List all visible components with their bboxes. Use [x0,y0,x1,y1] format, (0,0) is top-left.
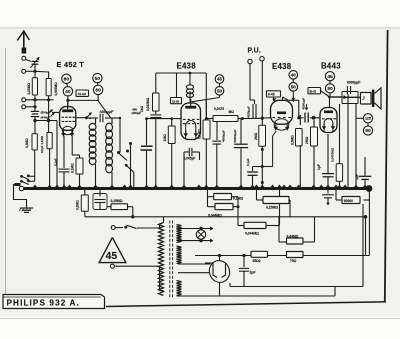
svg-text:E438: E438 [272,62,292,71]
svg-text:·450: ·450 [132,108,138,112]
bus junction x=79.5 [77,185,82,188]
svg-text:2MΩ: 2MΩ [305,136,309,144]
op E438 first tube [181,103,201,140]
ground [20,207,33,209]
frame bottom faint line [0,318,400,320]
svg-text:0,044MΩ: 0,044MΩ [208,214,222,218]
ground bus [21,187,372,190]
svg-text:4250μμF: 4250μμF [247,106,251,118]
resistor 0.1M cathode2 [203,120,210,139]
trimmer box E-2 [76,90,89,96]
terminal E1 [22,105,26,109]
capacitor 500pF stack [31,111,39,120]
resistor 1.1M lower-left [47,133,52,149]
svg-text:50: 50 [95,76,101,82]
svg-text:50: 50 [217,88,223,93]
resistor 2M [259,125,266,146]
band switch contacts [20,174,35,184]
test point 45b [325,72,334,81]
svg-text:╯: ╯ [362,96,366,103]
coil L2 [106,123,113,132]
svg-text:90: 90 [365,128,371,134]
frame top edge [0,27,400,29]
coil L1 [89,123,96,130]
wire tp B443 [329,81,331,84]
wires input resistors [35,71,49,100]
tube2 plate lead [283,97,289,101]
electrolytic cap right [322,189,334,206]
transformer secondary S1 [177,225,182,243]
svg-text:45: 45 [217,77,223,82]
trimmer box grid B443 [308,88,321,94]
rf coil above tube [186,85,193,89]
trimmer box B-6 [171,98,182,104]
op E452T tube [60,107,76,131]
bus junction x=356 [353,185,358,188]
terminal mains2 [110,264,114,268]
output cap can [342,92,358,104]
svg-text:0,0475: 0,0475 [214,107,224,111]
svg-text:80: 80 [64,77,70,83]
mains2 wire [114,266,163,290]
label triangle 45 [99,237,126,262]
bus junction x=49.6 [47,185,52,188]
resistor 0.0475M horizontal [213,116,238,122]
svg-text:0,05MΩ: 0,05MΩ [27,83,31,95]
bus left terminal [19,186,23,190]
svg-text:0,1μF: 0,1μF [54,158,58,166]
capacitor 8000pF [346,86,348,94]
svg-text:0,1MΩ: 0,1MΩ [198,129,202,139]
bus junction x=112 [109,185,114,188]
svg-text:45: 45 [327,74,333,80]
variable capacitor 400pF [88,114,112,122]
svg-text:1μF: 1μF [317,164,321,170]
wire tp to tube cap [66,84,110,118]
tp 125 wires [356,118,368,126]
bus junction x=216.8 [214,185,219,188]
resistor 0.3M lower-left [32,134,37,150]
wires 0.0475M [205,100,249,120]
resistor 0.0475M second [336,164,342,182]
wire E1 row [26,100,37,112]
op B443 tube [320,108,337,133]
ground connection wire [14,183,27,208]
bus junction x=206.3 [204,185,209,188]
test point 125 [363,114,372,123]
wire bias row [33,100,57,189]
capacitor 4250pF first [250,64,256,119]
bus junction x=171.7 [169,185,174,188]
resistor 0.15M b [263,197,289,204]
bus junction x=256.5 [254,185,259,188]
wires 60000 [336,189,369,201]
capacitor 4000pF hang [212,122,221,189]
bus junction x=64 [61,185,66,188]
svg-text:4250μμF: 4250μμF [302,98,306,110]
bus junction x=298.8 [296,185,301,188]
B443 grid wire [321,91,331,108]
resistor 2M second [311,127,318,146]
frame right edge [385,30,388,302]
capacitor 3uF [239,254,249,287]
test point 50 [93,73,102,82]
capacitor 0.045uF [184,148,200,189]
resistor 0.044M a [215,204,233,210]
test point 90b [363,126,372,135]
wires 2M [249,118,264,188]
svg-text:lp·Ω: lp·Ω [310,89,317,93]
wire plate drop [205,73,207,189]
svg-text:0,44MΩ: 0,44MΩ [287,234,299,238]
svg-text:1μF: 1μF [355,174,359,180]
wires 0.15M b [257,189,291,217]
wire A2 row [26,70,49,79]
resistor 0.1M cathode1 [76,158,83,174]
test point 50c [289,83,298,92]
svg-text:0,044MΩ: 0,044MΩ [245,232,259,236]
transformer primary [159,223,164,296]
test point 90 [325,84,334,93]
antenna trimmer capacitor [26,57,40,71]
bus junction x=321.3 [319,185,324,188]
svg-text:0,0475MΩ: 0,0475MΩ [331,147,335,162]
wires 0.15M mains [107,207,135,219]
antenna [17,31,29,54]
bus junction x=345 [342,185,347,188]
svg-text:MΩ: MΩ [229,110,235,114]
resistor 0.05M [32,78,37,95]
wire 2M second [313,120,315,127]
bus junction x=328 [325,185,330,188]
resistor 550 [251,251,268,257]
svg-text:3μF: 3μF [250,271,256,275]
resistor 0.15M mains [111,204,128,210]
bus junction x=272.5 [270,185,275,188]
svg-text:0,042MΩ: 0,042MΩ [146,97,150,111]
svg-text:δ1·E2: δ1·E2 [78,92,86,96]
transformer secondary S2 [177,246,182,264]
bus junction x=155.8 [153,185,158,188]
bottom nested wires [177,204,364,296]
terminal mains1 [111,226,115,230]
svg-text:PHILIPS 932 A.: PHILIPS 932 A. [7,298,80,307]
bus junction x=95.5 [93,185,98,188]
tube2 cathode curl [262,131,276,167]
wire tp45 to tube [192,83,220,102]
test point 50b [215,87,224,96]
bus junction x=262.3 [260,185,265,188]
bus big junction dot [366,185,373,192]
tube1 cathode network [64,136,80,168]
svg-text:125: 125 [365,117,371,121]
svg-text:0,15MΩ: 0,15MΩ [111,199,123,203]
speaker [361,88,382,109]
bus junction x=365 [362,185,367,188]
svg-text:0,1MΩ: 0,1MΩ [71,163,75,173]
mains rail [85,216,366,218]
capacitor 0.1uF [247,167,262,189]
terminal PU2 [260,57,264,61]
svg-text:50: 50 [291,84,297,89]
svg-text:0,5μF 1,1MΩ: 0,5μF 1,1MΩ [40,135,44,153]
heater row wire [195,255,251,257]
bus junction x=279.5 [277,185,282,188]
wave switch cluster [112,117,134,189]
svg-text:E 452 T: E 452 T [57,60,85,69]
wires 0.044M b [238,189,280,226]
boxed capacitor mains [93,189,107,210]
padder capacitor [141,118,153,189]
svg-text:0,065MΩ: 0,065MΩ [54,82,58,96]
svg-text:40: 40 [291,72,297,77]
resistor 0.2M [81,195,88,211]
resistor 0.042M [153,93,160,111]
wire 75 right [303,255,369,257]
bus junction x=184 [181,185,186,188]
svg-text:0,3MΩ: 0,3MΩ [25,138,29,148]
svg-text:δ1·6δ: δ1·6δ [172,99,180,103]
svg-text:40: 40 [65,89,71,95]
svg-text:0,15MΩ: 0,15MΩ [266,206,278,210]
PU wires [261,61,263,118]
wire tp50-60 [97,83,100,85]
bus junction x=199 [196,185,201,188]
resistor 0.44M [287,238,304,244]
svg-text:1kΩ: 1kΩ [140,105,144,112]
svg-text:2MΩ: 2MΩ [254,132,258,140]
rectifier 506 tube [178,254,232,296]
svg-text:B443: B443 [321,62,341,71]
wires bias network [208,189,240,226]
wire 0.5M [299,115,301,125]
terminal PU1 [248,59,252,63]
resistor 0.065M [46,79,51,96]
svg-text:50000μμF: 50000μμF [233,129,237,142]
tube2 grid lead [261,117,271,120]
test point 40b [289,71,298,80]
svg-text:90: 90 [327,86,333,92]
svg-text:60000: 60000 [344,199,353,203]
bus junction x=252.5 [250,185,255,188]
bus junction x=146.5 [144,185,149,188]
svg-text:0,2MΩ: 0,2MΩ [76,200,80,210]
trimmer box 0-45 [267,91,281,97]
bus junction x=284 [281,185,286,188]
right drop wires [364,189,370,256]
resistor 0.1M bias [214,194,232,200]
screen feed rail [156,72,207,93]
wires 0.44M [279,217,315,242]
bus junction x=313.6 [311,185,316,188]
test point 40 [63,87,72,96]
bus junction x=130.5 [128,185,133,188]
terminal A2 [22,69,26,73]
bus junction x=69.5 [67,185,72,188]
capacitor tube1 bypass [59,168,70,170]
frame bottom edge [106,302,386,307]
wire cathode1 to bus [79,174,81,189]
svg-text:0·45: 0·45 [268,93,275,97]
bus junction x=241 [238,185,243,188]
svg-text:0,1μF: 0,1μF [246,158,250,166]
capacitor under 0.042M [150,111,161,189]
svg-text:0,5MΩ: 0,5MΩ [291,135,295,145]
resistor 0.044M b [244,222,266,228]
capacitor 50000pF [234,119,248,189]
test point 60 [93,85,102,94]
test point 45 [215,75,224,84]
transformer core [170,221,173,298]
svg-text:P.U.: P.U. [248,48,262,55]
capacitor 1uF right [359,157,372,189]
svg-text:E438: E438 [177,62,197,71]
bus junction x=124.5 [122,185,127,188]
resistor 0.5M [296,129,303,147]
svg-text:0,045μF: 0,045μF [184,157,196,161]
bus junction x=336 [333,185,338,188]
resistor 60000 [342,197,360,204]
svg-text:400μμF: 400μμF [100,109,115,114]
terminal A1 [22,98,26,102]
wire 0.0475M second [339,104,341,189]
wire A1 row [26,98,54,101]
tube1 grid lead [49,109,60,116]
bus junction x=339.5 [337,185,342,188]
wires lower resistors to switch [35,149,50,189]
capacitor 1uF cathode B443 [322,134,334,189]
test point 80 [62,74,71,83]
antenna terminal [22,56,26,60]
capacitor 4250pF second [289,100,321,122]
transformer secondary S3 [177,281,182,296]
title box PHILIPS 932A [3,295,105,309]
output line [331,95,361,99]
svg-text:8000μμF: 8000μμF [347,81,360,85]
wire 550-75 [268,255,287,257]
bus junction x=290 [287,185,292,188]
svg-text:4000μμF: 4000μμF [222,130,226,142]
bus junction x=57 [54,185,59,188]
mains switch [115,224,159,229]
resistor 1M [168,126,175,144]
frame left edge [5,48,7,307]
resistor 75 [287,252,304,258]
wire tp40b [292,79,294,82]
tube1 plate lead [76,112,92,119]
svg-text:75Ω: 75Ω [290,259,297,263]
speaker feed wires [348,94,356,189]
op E438 second tube [271,100,293,124]
svg-text:60: 60 [95,88,101,94]
wires 1M [145,117,181,188]
svg-text:1MΩ: 1MΩ [163,134,167,142]
bus junction x=35 [32,185,37,188]
svg-text:45: 45 [106,250,118,262]
wires 0.2M [84,189,86,217]
svg-text:55Ω2: 55Ω2 [253,259,261,263]
wire box to tube [272,97,276,102]
dial lamp [177,226,214,242]
